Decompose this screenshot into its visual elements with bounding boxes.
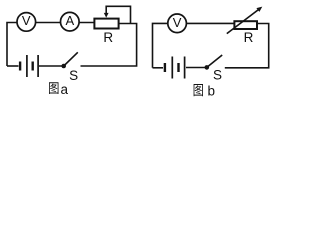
- svg-text:A: A: [65, 13, 74, 28]
- svg-text:b: b: [208, 83, 216, 98]
- svg-text:V: V: [22, 13, 31, 28]
- svg-text:S: S: [69, 68, 78, 83]
- svg-text:R: R: [244, 30, 254, 45]
- svg-text:V: V: [173, 15, 182, 30]
- svg-text:a: a: [61, 82, 69, 97]
- svg-text:R: R: [103, 30, 113, 45]
- svg-text:S: S: [213, 67, 222, 82]
